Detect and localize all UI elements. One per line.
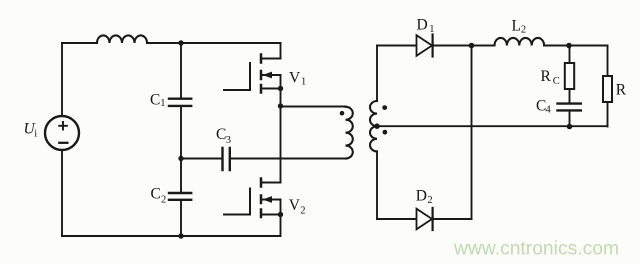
svg-text:1: 1 [429, 24, 434, 35]
transformer T primary winding [346, 107, 353, 159]
wire: D1 cathode to junction [433, 45, 472, 47]
wire: R branch vertical top [607, 46, 609, 77]
wire: C3 to primary bottom (crosses midpoint wire, no junction) [231, 158, 346, 160]
svg-text:R: R [616, 82, 627, 99]
svg-text:D: D [416, 188, 427, 205]
wire: top rail right (inductor to V1 drain corner) [147, 42, 281, 44]
node: midpoint to primary [278, 103, 283, 108]
node: center tap [374, 123, 380, 129]
node: output bottom [567, 124, 573, 130]
wire: C3 left lead [181, 158, 222, 160]
wire: D2 cathode to cathode bus [433, 218, 472, 220]
svg-text:D: D [417, 16, 428, 33]
svg-text:R: R [541, 68, 552, 85]
wire: source bottom lead [61, 150, 63, 236]
wire: secondary bottom lead [376, 151, 378, 219]
svg-text:2: 2 [521, 25, 526, 36]
V1 drain stub [261, 58, 281, 60]
source U1 (input source circle) [45, 116, 79, 150]
transistor V2 (lower MOSFET) [224, 179, 283, 237]
svg-text:C: C [150, 92, 160, 109]
svg-text:i: i [34, 129, 37, 140]
svg-text:V: V [289, 197, 301, 214]
svg-text:2: 2 [161, 195, 166, 206]
wire: L2 to output corner [544, 45, 607, 47]
wire: cathode bus vertical (crosses output return, no junction) [471, 46, 473, 220]
capacitor C3 [223, 148, 230, 170]
diode D2 [417, 208, 433, 230]
wire: V2 source to bottom rail [280, 200, 282, 237]
secondary lower coil [370, 126, 377, 151]
wire: C4 to bottom rail [569, 110, 571, 126]
capacitor C4 [558, 104, 581, 111]
svg-text:2: 2 [427, 195, 432, 206]
wire: top rail left (source to inductor) [62, 42, 97, 44]
svg-text:2: 2 [300, 206, 305, 217]
V1 body stub with arrow [261, 74, 281, 76]
svg-text:1: 1 [301, 77, 306, 88]
V2 drain stub [261, 182, 281, 184]
node: divider midpoint (C3 tap) [178, 156, 183, 161]
node: output top [566, 43, 572, 49]
V1 channel segments [260, 55, 263, 93]
wire: Rc branch top [569, 46, 571, 64]
minus sign of source [59, 142, 67, 144]
wire: secondary top to D1 [377, 45, 417, 47]
wire: R branch vertical bottom [607, 102, 609, 127]
V1 gate lead [224, 89, 250, 91]
svg-text:L: L [512, 18, 521, 35]
wire: bottom rail left [62, 235, 281, 237]
svg-text:www.cntronics.com: www.cntronics.com [453, 239, 619, 260]
V1 source stub [261, 88, 281, 90]
resistor Rc [565, 63, 574, 89]
transformer T secondary winding (center tapped) [370, 46, 387, 220]
wire: secondary bottom to D2 [377, 218, 417, 220]
svg-text:C: C [553, 76, 560, 87]
secondary polarity dot upper [382, 105, 387, 110]
svg-text:1: 1 [160, 98, 165, 109]
wire: Rc to C4 [569, 89, 571, 102]
V2 channel segments [260, 179, 263, 218]
wire: between C1 and C2 [180, 107, 182, 192]
V2 body stub with arrow [261, 199, 281, 201]
wire: V1 drain vertical from top rail [280, 43, 282, 59]
plus sign of source [59, 122, 67, 130]
transistor V1 (upper MOSFET) [224, 43, 283, 93]
wire: midpoint to primary top [281, 106, 346, 108]
wire: output bottom rail (center tap return) [377, 125, 608, 127]
resistor R [603, 76, 612, 102]
wire: divider vertical above C1 [180, 43, 182, 98]
inductor L2 [495, 38, 545, 46]
node: V2 source [278, 212, 283, 217]
svg-text:V: V [289, 69, 301, 86]
wire: half-bridge midpoint vertical (V1 source to V2 drain, crosses C3 wire) [280, 75, 282, 183]
primary polarity dot [340, 111, 345, 116]
secondary polarity dot lower [383, 130, 388, 135]
svg-text:3: 3 [226, 135, 231, 146]
svg-text:C: C [216, 126, 226, 143]
V1 gate bar [249, 63, 251, 90]
wire: junction to L2 [472, 45, 495, 47]
node: rectifier output junction [469, 43, 475, 49]
V2 gate lead [224, 214, 250, 216]
inductor L1 (input filter choke) [97, 35, 147, 43]
capacitor C2 [169, 193, 191, 200]
node: V1 source [278, 86, 283, 91]
wire: below C2 [180, 201, 182, 236]
diode D1 [417, 35, 433, 57]
secondary upper coil [370, 101, 377, 126]
svg-text:C: C [151, 186, 161, 203]
wire: source top lead [61, 43, 63, 116]
V2 gate bar [249, 189, 251, 215]
node: top rail / C1 junction [178, 40, 183, 45]
capacitor C1 [169, 99, 191, 106]
node: bottom rail / C2 junction [178, 233, 183, 238]
wire: secondary top lead [376, 46, 378, 102]
svg-text:4: 4 [546, 105, 552, 116]
V2 source stub [261, 214, 281, 216]
